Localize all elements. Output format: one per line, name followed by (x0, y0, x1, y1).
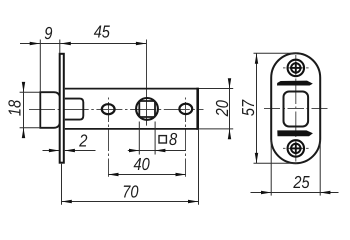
arrow 20 bottom (228, 129, 231, 139)
top screw (288, 60, 305, 77)
top screw centerline (283, 67, 309, 69)
guide box (65, 99, 84, 120)
dim 25 (270, 140, 272, 196)
svg-text:40: 40 (134, 154, 150, 174)
arrow 9 left (30, 42, 40, 45)
dim 9-45 line (20, 43, 146, 45)
arrow 70 right (188, 200, 198, 203)
dim square8 (138, 122, 140, 155)
main vertical centerline (295, 55, 297, 162)
bottom black bar (277, 130, 313, 136)
svg-text:8: 8 (169, 129, 177, 149)
top black bar (277, 81, 313, 86)
dim 57 (254, 52, 298, 54)
svg-text:20: 20 (212, 100, 232, 117)
body (65, 89, 198, 129)
arrow 45 left (61, 42, 71, 45)
faceplate (side) (60, 54, 64, 163)
main horizontal centerline (264, 108, 328, 110)
arrow sq8 left (129, 149, 139, 152)
arrow 18 bottom (22, 128, 25, 138)
svg-text:70: 70 (122, 181, 138, 201)
dim 2 (43, 150, 60, 152)
arrow 70 left (62, 200, 72, 203)
arrow 40 right (176, 173, 186, 176)
arrow 25 left (261, 191, 271, 194)
svg-text:57: 57 (238, 99, 258, 116)
ext line faceplate top (59, 40, 61, 54)
arrow sq8 right (155, 149, 165, 152)
centerline right hole vertical (185, 98, 187, 177)
spindle hole circle (136, 98, 158, 120)
arrow 2 right (65, 149, 75, 152)
latch bolt (40, 92, 60, 128)
svg-text:25: 25 (293, 172, 310, 192)
dim 20 (199, 88, 233, 90)
arrow 18 top (22, 82, 25, 92)
right hole (179, 104, 192, 114)
arrow 25 right (320, 191, 330, 194)
label square8 symbol (159, 136, 166, 143)
arrow 45 right (136, 42, 146, 45)
ext line bolt tip (39, 40, 41, 93)
plate outline (271, 53, 320, 163)
centerline oval hole vertical (108, 98, 110, 177)
arrow 40 left (108, 173, 118, 176)
body right edge (196, 88, 199, 130)
arrow 57 top (255, 53, 258, 63)
centerline spindle vertical (146, 40, 148, 126)
dim 40 (108, 174, 186, 176)
arrow 57 bottom (255, 153, 258, 163)
dim 18 (23, 83, 25, 138)
svg-text:2: 2 (78, 131, 87, 151)
bottom screw (288, 140, 305, 157)
oval hole (102, 104, 115, 114)
spindle square hole (139, 101, 155, 117)
horizontal centerline (29, 109, 204, 111)
inner latch hole rect (284, 92, 309, 127)
svg-text:45: 45 (94, 22, 110, 42)
bottom screw centerline (283, 147, 309, 149)
dim 70 (61, 164, 63, 205)
arrow 2 left (49, 149, 59, 152)
svg-text:18: 18 (5, 100, 25, 116)
svg-text:9: 9 (44, 23, 52, 43)
arrow 20 top (228, 78, 231, 88)
